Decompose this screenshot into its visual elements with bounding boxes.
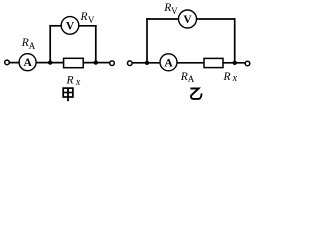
wire node B to right terminal [96, 62, 110, 64]
resistor Rx box (circuit 1) [64, 58, 84, 67]
label R_V (circuit 1) [80, 11, 95, 25]
node A junction dot [48, 60, 52, 64]
node D junction dot [233, 61, 237, 65]
wire ammeter to node [36, 62, 52, 64]
label R_x (circuit 2) [223, 71, 238, 84]
wire terminal to ammeter [9, 62, 19, 64]
svg-text:R: R [223, 71, 231, 83]
svg-text:A: A [23, 57, 32, 69]
top wire voltmeter to right corner [79, 25, 97, 27]
svg-text:R: R [21, 37, 29, 49]
svg-text:V: V [171, 6, 178, 16]
top wire to voltmeter [49, 25, 61, 27]
svg-text:A: A [29, 41, 36, 51]
ammeter A (R_A) circuit 2 [160, 54, 177, 71]
svg-text:R: R [66, 75, 74, 87]
svg-text:x: x [232, 73, 238, 84]
wire node A to resistor (behind box) [50, 62, 96, 64]
wire vertical up from node A [49, 25, 51, 63]
top wire to voltmeter (circuit 2) [146, 18, 179, 20]
label R_x (circuit 1) [66, 75, 81, 88]
svg-text:A: A [188, 74, 195, 84]
terminal left (circuit 1) [5, 60, 10, 65]
wire vertical down right side circuit 2 [234, 18, 236, 63]
svg-text:R: R [180, 71, 188, 83]
top wire voltmeter to right corner (circuit 2) [197, 18, 236, 20]
svg-text:V: V [183, 14, 192, 26]
svg-text:R: R [163, 2, 171, 14]
node C junction dot [145, 61, 149, 65]
svg-text:V: V [66, 21, 75, 33]
wire ammeter to resistor (circuit 2) [177, 62, 205, 64]
wire vertical down right side circuit 1 [95, 25, 97, 63]
terminal right (circuit 2) [245, 61, 250, 66]
node B junction dot [94, 60, 98, 64]
voltmeter V (R_V) circuit 1 [61, 17, 79, 35]
wire resistor to node D and terminal [223, 62, 245, 64]
terminal right (circuit 1) [110, 61, 115, 66]
svg-text:x: x [75, 77, 81, 88]
terminal left (circuit 2) [128, 61, 133, 66]
label 乙 [190, 89, 201, 99]
label 甲 [63, 88, 73, 101]
label R_V (circuit 2) [163, 2, 178, 16]
svg-text:A: A [164, 57, 173, 69]
voltmeter V (R_V) circuit 2 [179, 10, 197, 28]
svg-text:V: V [88, 15, 95, 25]
resistor Rx box (circuit 2) [204, 58, 223, 67]
wire terminal to ammeter [132, 62, 160, 64]
ammeter A (R_A) [19, 54, 36, 71]
wire vertical up from node C [146, 18, 148, 63]
svg-text:R: R [80, 11, 88, 23]
label R_A (circuit 1) [21, 37, 36, 51]
label R_A (circuit 2) [180, 71, 195, 84]
